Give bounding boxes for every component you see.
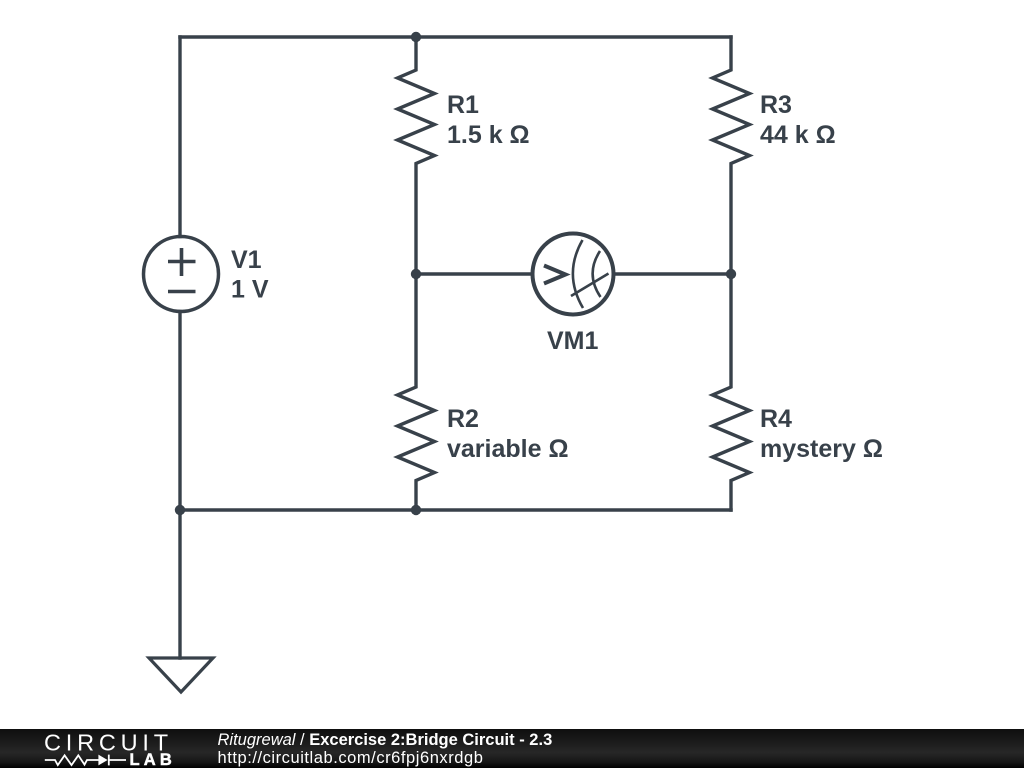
svg-text:VM1: VM1 — [547, 327, 599, 355]
svg-text:R2: R2 — [447, 405, 479, 433]
svg-text:1.5 k Ω: 1.5 k Ω — [447, 121, 530, 149]
svg-text:Ritugrewal / Excercise 2:Bridg: Ritugrewal / Excercise 2:Bridge Circuit … — [218, 731, 553, 749]
svg-text:http://circuitlab.com/cr6fpj6n: http://circuitlab.com/cr6fpj6nxrdgb — [218, 749, 484, 767]
svg-text:R4: R4 — [760, 405, 792, 433]
svg-text:R1: R1 — [447, 91, 479, 119]
svg-text:mystery Ω: mystery Ω — [760, 435, 883, 463]
svg-text:variable Ω: variable Ω — [447, 435, 569, 463]
svg-text:R3: R3 — [760, 91, 792, 119]
svg-text:44 k Ω: 44 k Ω — [760, 121, 836, 149]
svg-text:LAB: LAB — [130, 751, 177, 768]
svg-text:V1: V1 — [231, 246, 262, 274]
svg-text:1 V: 1 V — [231, 276, 269, 304]
